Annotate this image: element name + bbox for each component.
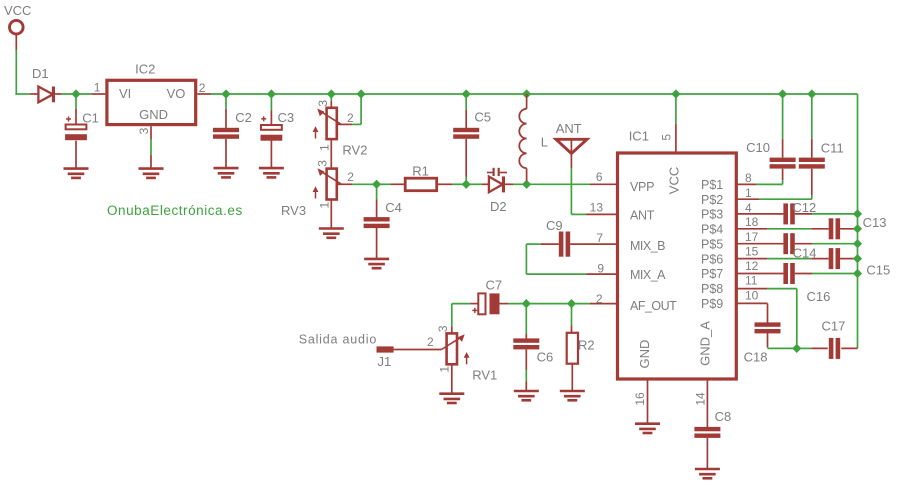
- svg-text:GND_A: GND_A: [698, 321, 713, 366]
- svg-text:C4: C4: [385, 200, 402, 215]
- svg-text:3: 3: [316, 100, 330, 107]
- svg-text:C8: C8: [715, 409, 732, 424]
- svg-text:RV3: RV3: [281, 203, 306, 218]
- svg-text:L: L: [541, 135, 548, 150]
- svg-text:C7: C7: [486, 277, 503, 292]
- svg-text:1: 1: [745, 186, 752, 200]
- svg-text:IC1: IC1: [629, 129, 649, 144]
- svg-text:2: 2: [596, 292, 603, 306]
- svg-text:18: 18: [745, 215, 759, 229]
- svg-text:RV2: RV2: [342, 142, 367, 157]
- svg-text:C3: C3: [278, 110, 295, 125]
- svg-text:8: 8: [745, 171, 752, 185]
- svg-text:VO: VO: [167, 86, 186, 101]
- svg-text:5: 5: [660, 134, 674, 141]
- svg-text:D2: D2: [490, 199, 507, 214]
- svg-text:C5: C5: [474, 110, 491, 125]
- svg-text:1: 1: [318, 144, 332, 151]
- svg-text:GND: GND: [637, 340, 652, 369]
- svg-text:C2: C2: [235, 110, 252, 125]
- svg-text:14: 14: [693, 392, 707, 406]
- svg-text:2: 2: [347, 111, 354, 125]
- svg-text:OnubaElectrónica.es: OnubaElectrónica.es: [107, 203, 243, 218]
- svg-text:17: 17: [745, 230, 759, 244]
- svg-text:ANT: ANT: [556, 121, 582, 136]
- svg-text:6: 6: [596, 170, 603, 184]
- svg-text:R2: R2: [578, 338, 595, 353]
- svg-text:2: 2: [199, 81, 206, 95]
- svg-text:13: 13: [590, 201, 604, 215]
- svg-text:11: 11: [745, 274, 758, 288]
- svg-text:RV1: RV1: [472, 368, 497, 383]
- svg-text:C18: C18: [744, 350, 768, 365]
- svg-text:J1: J1: [378, 354, 392, 369]
- svg-text:C10: C10: [746, 140, 770, 155]
- svg-text:C16: C16: [807, 289, 831, 304]
- svg-text:C1: C1: [82, 110, 99, 125]
- svg-text:P$8: P$8: [701, 282, 723, 296]
- svg-text:C9: C9: [546, 218, 563, 233]
- svg-text:1: 1: [94, 80, 101, 94]
- svg-text:10: 10: [745, 288, 759, 302]
- svg-text:1: 1: [438, 366, 452, 373]
- svg-text:P$2: P$2: [701, 193, 723, 207]
- svg-text:IC2: IC2: [135, 62, 155, 77]
- svg-text:3: 3: [436, 325, 450, 332]
- svg-text:16: 16: [633, 392, 647, 406]
- svg-text:3: 3: [316, 160, 330, 167]
- svg-text:MIX_B: MIX_B: [630, 239, 665, 253]
- svg-text:ANT: ANT: [630, 209, 655, 223]
- svg-text:C17: C17: [822, 319, 846, 334]
- svg-text:P$3: P$3: [701, 208, 723, 222]
- svg-text:P$7: P$7: [701, 267, 723, 281]
- svg-text:AF_OUT: AF_OUT: [630, 299, 677, 313]
- svg-text:2: 2: [347, 170, 354, 184]
- svg-text:2: 2: [427, 335, 434, 349]
- svg-text:C11: C11: [821, 140, 844, 155]
- svg-text:VI: VI: [119, 86, 131, 101]
- svg-text:7: 7: [596, 231, 603, 245]
- svg-text:4: 4: [745, 201, 752, 215]
- svg-text:C6: C6: [537, 350, 554, 365]
- svg-text:MIX_A: MIX_A: [630, 268, 666, 282]
- svg-text:P$9: P$9: [701, 297, 723, 311]
- svg-text:C12: C12: [792, 200, 816, 215]
- svg-text:9: 9: [597, 262, 604, 276]
- svg-text:C13: C13: [863, 215, 887, 230]
- svg-text:3: 3: [137, 127, 151, 134]
- svg-text:P$4: P$4: [701, 223, 723, 237]
- svg-text:P$6: P$6: [701, 252, 723, 266]
- svg-text:Salida audio: Salida audio: [299, 333, 377, 347]
- svg-text:P$5: P$5: [701, 237, 723, 251]
- svg-text:1: 1: [318, 202, 332, 209]
- svg-text:GND: GND: [139, 107, 168, 122]
- svg-text:VPP: VPP: [630, 180, 654, 194]
- svg-text:D1: D1: [32, 66, 49, 81]
- svg-text:VCC: VCC: [667, 167, 682, 194]
- svg-text:VCC: VCC: [4, 3, 31, 18]
- svg-text:R1: R1: [412, 163, 429, 178]
- svg-text:P$1: P$1: [701, 178, 723, 192]
- svg-text:C15: C15: [866, 262, 890, 277]
- svg-text:12: 12: [745, 259, 759, 273]
- svg-text:15: 15: [745, 245, 759, 259]
